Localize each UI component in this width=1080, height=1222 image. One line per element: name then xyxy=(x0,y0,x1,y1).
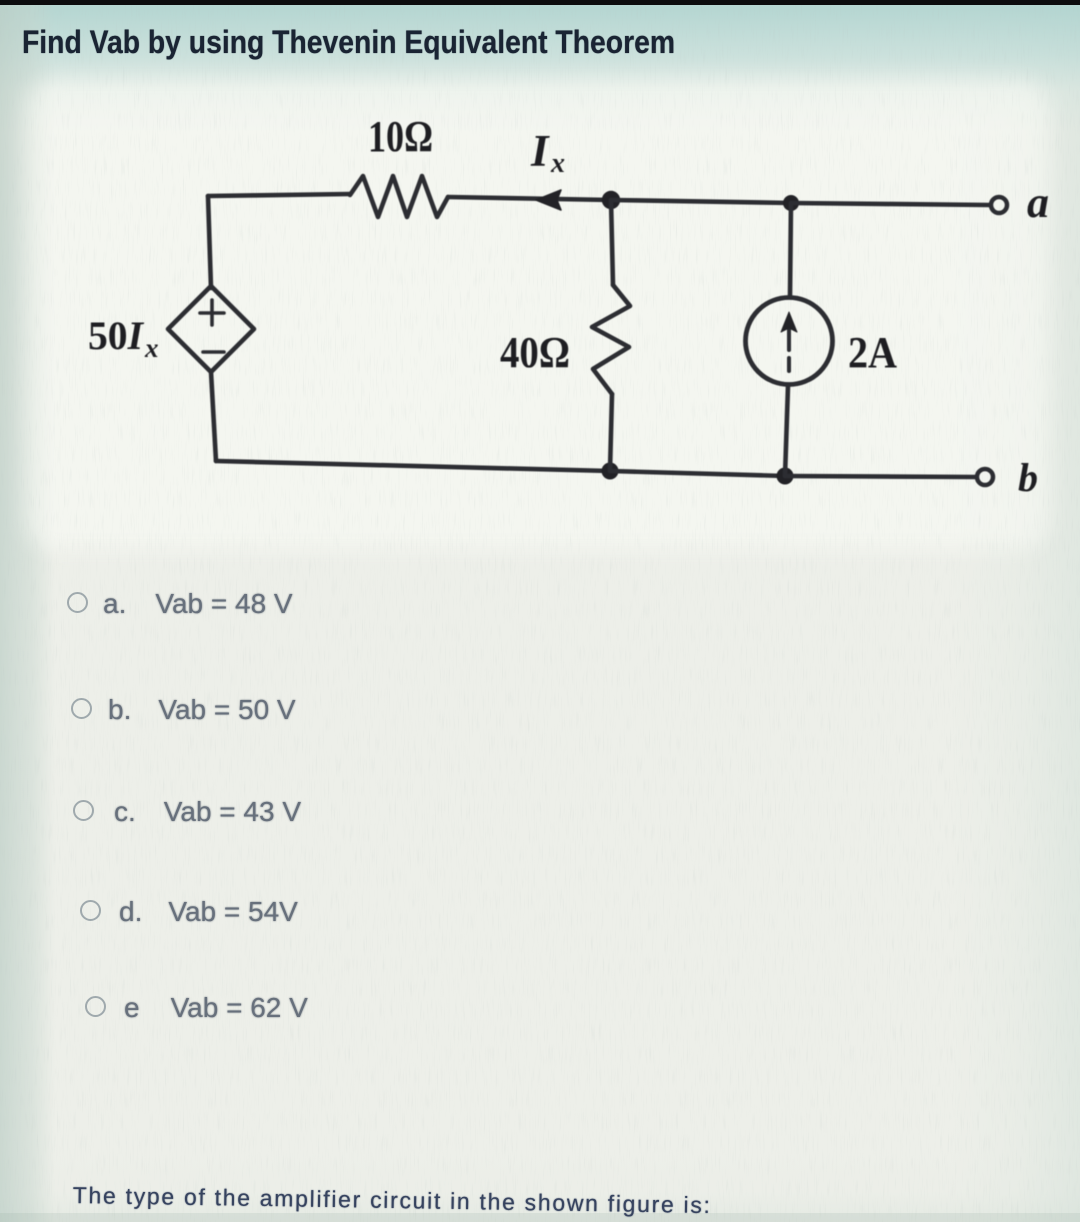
option a radio xyxy=(67,592,88,613)
node C (top, junction to current source) xyxy=(783,195,799,211)
bottom question text xyxy=(73,1182,712,1219)
wire: resistor R2 to node B xyxy=(610,394,612,471)
option d radio xyxy=(80,900,101,921)
bottom shading band xyxy=(0,1213,1080,1222)
wire: dependent source bottom to bottom-left corner xyxy=(211,372,216,461)
wire: bottom rail middle segment xyxy=(610,471,785,476)
option d text xyxy=(119,896,298,928)
title xyxy=(22,24,675,61)
wire: node A down to resistor R2 xyxy=(611,200,613,285)
wire: left vertical (top corner to dependent source top) xyxy=(208,196,211,288)
wire: top-left horizontal to resistor R1 xyxy=(208,194,350,196)
node D (bottom, under current source) xyxy=(777,468,794,485)
option c text xyxy=(114,796,301,828)
plus sign inside dependent source xyxy=(200,300,224,325)
option b radio xyxy=(71,698,92,719)
wire: current source I1 to node D xyxy=(785,386,788,476)
wire: bottom rail left segment xyxy=(216,461,610,471)
white paper panel behind circuit xyxy=(25,80,1050,550)
resistor R2 40ohm vertical zigzag xyxy=(592,285,630,394)
node A (top, junction of R1/R2) xyxy=(602,191,620,209)
wire: node C to terminal a xyxy=(791,203,989,205)
option e text xyxy=(124,992,308,1024)
current arrow Ix (arrowhead pointing left) xyxy=(536,190,561,210)
dependent source U1 (diamond, 50Ix) xyxy=(168,286,254,372)
terminal a (open circle) xyxy=(991,197,1007,213)
wire: node D to terminal b xyxy=(785,476,975,477)
minus sign inside dependent source xyxy=(203,350,224,354)
option e radio xyxy=(85,996,106,1017)
black top bar xyxy=(0,0,1080,5)
terminal b (open circle) xyxy=(977,469,993,485)
wire: node A to node C xyxy=(611,200,791,203)
resistor R1 10ohm zigzag xyxy=(350,176,448,217)
option b text xyxy=(108,694,296,726)
wire: resistor R1 to node A xyxy=(448,197,611,200)
wire: node C down to current source I1 xyxy=(790,203,791,296)
node B (bottom, under R2) xyxy=(602,463,619,480)
option a text xyxy=(103,588,293,620)
current source I1 (circle) xyxy=(746,298,833,385)
option c radio xyxy=(73,800,94,821)
arrow inside current source (pointing up) xyxy=(787,330,791,371)
